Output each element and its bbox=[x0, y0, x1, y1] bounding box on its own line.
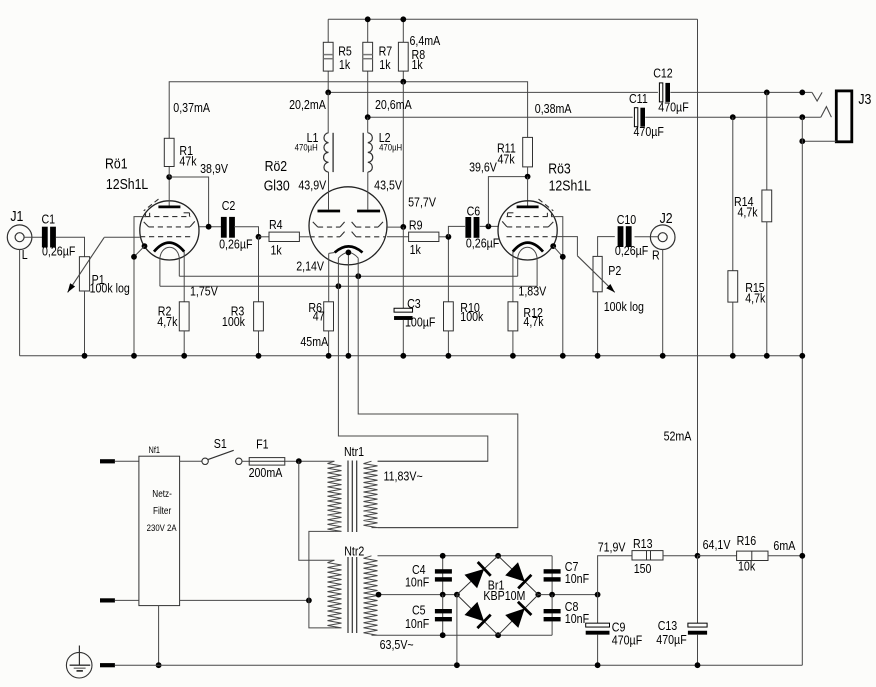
svg-text:6mA: 6mA bbox=[773, 538, 795, 553]
node ground bus R2 bbox=[181, 353, 187, 359]
label R9 bbox=[409, 217, 423, 232]
value R14 4,7k bbox=[737, 204, 757, 219]
diode Br1 D3 bbox=[465, 602, 491, 628]
svg-text:1,75V: 1,75V bbox=[190, 283, 218, 298]
wire bridge plus to R13 node bbox=[538, 594, 597, 596]
label 1,75V bbox=[190, 283, 218, 298]
svg-text:C1: C1 bbox=[42, 211, 56, 226]
svg-text:10nF: 10nF bbox=[405, 616, 429, 631]
svg-text:63,5V~: 63,5V~ bbox=[380, 637, 414, 652]
wire Rö2 screen to node bbox=[387, 226, 403, 228]
wire node to R4 bbox=[259, 236, 270, 238]
wire C10 to J2 bbox=[635, 236, 659, 238]
wire mains ground rail bbox=[115, 664, 802, 666]
label 6mA bbox=[773, 538, 795, 553]
value R6 47 bbox=[313, 309, 325, 324]
svg-text:R4: R4 bbox=[269, 217, 283, 232]
wire R12 bottom lead bbox=[512, 331, 514, 356]
label 64,1V bbox=[703, 537, 731, 552]
resistor R8 bbox=[398, 42, 408, 71]
label R3 bbox=[231, 303, 245, 318]
label KBP10M bbox=[483, 588, 525, 603]
value R3 100k bbox=[222, 314, 245, 329]
svg-text:470µH: 470µH bbox=[295, 142, 318, 153]
value R7 1k bbox=[379, 57, 390, 72]
svg-text:57,7V: 57,7V bbox=[408, 194, 436, 209]
node ground bus R3 bbox=[256, 353, 262, 359]
node J3 sleeve node bbox=[799, 138, 805, 144]
svg-text:64,1V: 64,1V bbox=[703, 537, 731, 552]
label P1 bbox=[92, 272, 105, 287]
label C11 bbox=[629, 91, 648, 106]
svg-text:4,7k: 4,7k bbox=[523, 314, 543, 329]
wire Ntr2 primary bottom bbox=[309, 600, 335, 628]
svg-text:R16: R16 bbox=[737, 533, 757, 548]
wire Ntr1 sec top bbox=[378, 460, 488, 462]
svg-text:KBP10M: KBP10M bbox=[483, 588, 525, 603]
svg-text:Rö1: Rö1 bbox=[105, 155, 128, 171]
label R2 bbox=[158, 303, 172, 318]
tube Rö3 grid1 row bbox=[507, 236, 558, 238]
svg-text:470µF: 470µF bbox=[633, 124, 663, 139]
wire Rö1 envelope to ground column bbox=[134, 246, 145, 257]
label 6,4mA bbox=[409, 33, 440, 48]
label R6 bbox=[308, 300, 322, 315]
diode Br1 D2 bbox=[505, 562, 531, 588]
svg-text:10nF: 10nF bbox=[405, 574, 429, 589]
wire R7 top lead bbox=[367, 19, 369, 42]
tube Rö3 anode bbox=[517, 205, 539, 208]
capacitor C12 bbox=[659, 83, 670, 102]
wire primary parallel feed bbox=[299, 461, 335, 560]
node R8 bottom junction bbox=[400, 79, 406, 85]
potentiometer P2 body bbox=[593, 256, 602, 291]
svg-text:Filter: Filter bbox=[153, 505, 171, 516]
label L2 bbox=[379, 130, 391, 145]
value R11 47k bbox=[498, 151, 515, 166]
node R15 top junction bbox=[730, 114, 736, 120]
node R9/R10/C6 junction bbox=[446, 234, 452, 240]
svg-text:Rö2: Rö2 bbox=[265, 158, 288, 174]
wire screen feed column x403 bbox=[402, 82, 404, 227]
wire J1 ground lead bbox=[19, 250, 21, 356]
svg-text:100k: 100k bbox=[460, 309, 483, 324]
label Rö2 type Gl30 bbox=[264, 177, 290, 193]
svg-text:100k log: 100k log bbox=[604, 299, 644, 314]
svg-text:10k: 10k bbox=[738, 559, 755, 574]
tube Rö1 grid1 row bbox=[140, 236, 191, 238]
tube Rö2 cathode bbox=[335, 246, 363, 252]
connector J1 outer bbox=[7, 225, 32, 250]
label J2 bbox=[660, 210, 673, 226]
tube Rö1 anode bbox=[158, 205, 180, 208]
capacitor C13 bbox=[688, 623, 707, 635]
wire filter to S1 bbox=[180, 460, 202, 462]
transformer Ntr2 core bbox=[348, 557, 357, 633]
label 43,9V bbox=[298, 177, 326, 192]
wire bridge minus to ground bbox=[456, 595, 458, 666]
label R15 bbox=[745, 280, 765, 295]
wire R14 column bbox=[766, 92, 768, 190]
svg-text:1k: 1k bbox=[271, 242, 282, 257]
potentiometer P1 body bbox=[79, 257, 89, 291]
label R7 bbox=[379, 43, 393, 58]
label Br1 bbox=[488, 577, 505, 592]
label L1 bbox=[307, 130, 319, 145]
tube Rö1 grid2 row bbox=[144, 221, 195, 227]
wire Rö3 g3/envelope ground column bbox=[551, 217, 563, 356]
wire right output rail y117 bbox=[368, 116, 633, 118]
wire C6 to Rö3 bbox=[480, 225, 498, 227]
label C9 bbox=[612, 619, 626, 634]
node ground bus P2 bbox=[595, 353, 601, 359]
node Rö1 output junction bbox=[206, 224, 212, 230]
resistor R9 bbox=[409, 232, 439, 241]
value R15 4,7k bbox=[745, 290, 765, 305]
node C4/C5 mid junction bbox=[440, 592, 446, 598]
svg-text:47k: 47k bbox=[498, 151, 515, 166]
value L2 470uH bbox=[379, 142, 402, 153]
transformer Ntr1 primary bbox=[328, 461, 342, 531]
wire P2 top to C10 bbox=[598, 237, 615, 257]
node bridge plus corner bbox=[535, 592, 541, 598]
node R5/L1 junction bbox=[325, 90, 331, 96]
svg-text:39,6V: 39,6V bbox=[469, 159, 497, 174]
label R11 bbox=[497, 140, 516, 155]
wire heater rail lower bbox=[160, 285, 537, 287]
svg-text:C13: C13 bbox=[658, 618, 678, 633]
svg-text:4,7k: 4,7k bbox=[157, 314, 177, 329]
label C3 bbox=[407, 296, 421, 311]
wire Rö3 grid to P2 wiper bbox=[557, 237, 577, 256]
node Rö1 anode junction bbox=[166, 174, 172, 180]
svg-text:12Sh1L: 12Sh1L bbox=[106, 176, 149, 192]
inductor L2 bbox=[363, 133, 373, 172]
tube Rö3 envelope bbox=[498, 201, 557, 260]
value C8 10nF bbox=[565, 611, 589, 626]
resistor R15 bbox=[728, 271, 738, 302]
value R4 1k bbox=[271, 242, 282, 257]
svg-text:4,7k: 4,7k bbox=[737, 204, 757, 219]
wire Rö2 heater CT column bbox=[347, 253, 349, 356]
svg-text:0,38mA: 0,38mA bbox=[535, 101, 572, 116]
wire R1 bottom lead bbox=[168, 167, 170, 178]
wire R4 to Rö2 grid bbox=[299, 236, 309, 238]
wire node up to C6 bbox=[448, 226, 465, 236]
node ground bus R14 bbox=[764, 353, 770, 359]
svg-text:C3: C3 bbox=[407, 296, 421, 311]
potentiometer P2 wiper arrow bbox=[577, 256, 614, 293]
label R4 bbox=[269, 217, 283, 232]
capacitor C2 bbox=[221, 217, 235, 238]
connector J3 ring contact bbox=[821, 107, 832, 118]
svg-text:1k: 1k bbox=[410, 242, 421, 257]
wire R6 bottom lead bbox=[328, 331, 330, 356]
svg-text:Rö3: Rö3 bbox=[548, 160, 571, 176]
node C2/R3/R4 junction bbox=[256, 234, 262, 240]
node R16 ground junction bbox=[799, 553, 805, 559]
svg-text:C11: C11 bbox=[629, 91, 648, 106]
node bridge ground junction bbox=[454, 662, 460, 668]
wire R8 top lead bbox=[402, 19, 404, 42]
label R13 bbox=[633, 536, 653, 551]
resistor R14 bbox=[762, 190, 772, 222]
wire left output rail y92 bbox=[328, 91, 658, 93]
value C3 100uF bbox=[405, 314, 435, 329]
value C7 10nF bbox=[565, 571, 589, 586]
tube Rö3 grid2 row bbox=[502, 221, 553, 227]
label P2 bbox=[608, 263, 621, 278]
node ground bus J2 bbox=[660, 353, 666, 359]
resistor R1 bbox=[164, 138, 174, 166]
tube Rö1 envelope bbox=[140, 201, 199, 260]
connector J2 inner bbox=[658, 233, 667, 242]
node ground bus P1 bbox=[82, 353, 88, 359]
transformer Ntr1 secondary bbox=[364, 461, 378, 527]
capacitor C5 bbox=[435, 609, 452, 621]
wire C5 column bbox=[442, 595, 444, 636]
wire B+ node to R16 bbox=[698, 555, 737, 557]
svg-text:C10: C10 bbox=[617, 212, 637, 227]
label R16 bbox=[737, 533, 757, 548]
label Rö2 bbox=[265, 158, 288, 174]
wire B+ vertical 52mA feed bbox=[697, 19, 699, 556]
svg-text:C6: C6 bbox=[467, 203, 481, 218]
wire C4 column bbox=[442, 556, 444, 595]
svg-text:11,83V~: 11,83V~ bbox=[383, 469, 422, 484]
svg-text:J3: J3 bbox=[858, 91, 871, 107]
svg-text:1k: 1k bbox=[339, 57, 350, 72]
svg-text:J1: J1 bbox=[10, 208, 23, 224]
node ground bus R15 bbox=[730, 353, 736, 359]
label 20,6mA bbox=[375, 97, 412, 112]
wire Rö2 anode B lead bbox=[367, 172, 369, 210]
label C6 bbox=[467, 203, 481, 218]
node C4 top junction bbox=[440, 553, 446, 559]
wire C6 node to R11 bottom bbox=[488, 177, 527, 227]
svg-text:470µF: 470µF bbox=[658, 99, 688, 114]
resistor R2 bbox=[179, 302, 189, 331]
node ground bus Rö3 env bbox=[560, 353, 566, 359]
label C10 bbox=[617, 212, 637, 227]
capacitor C3 bbox=[394, 308, 413, 320]
svg-text:470µF: 470µF bbox=[612, 632, 642, 647]
label R1 bbox=[179, 143, 193, 158]
transformer Ntr2 secondary bbox=[364, 556, 378, 635]
node ground bus heater CT bbox=[346, 353, 352, 359]
value C13 470uF bbox=[656, 632, 686, 647]
switch S1 bbox=[202, 450, 242, 464]
value R10 100k bbox=[460, 309, 483, 324]
label C2 bbox=[222, 198, 236, 213]
wire R16 to ground column bbox=[768, 555, 802, 557]
value C9 470uF bbox=[612, 632, 642, 647]
wire C1 to P1 bbox=[56, 237, 85, 257]
wire C12 to J3 tip bbox=[670, 91, 812, 93]
label 2,14V bbox=[296, 258, 324, 273]
label 71,9V bbox=[598, 539, 626, 554]
wire J3 sleeve bbox=[802, 140, 836, 142]
wire P2 bottom to ground bbox=[597, 292, 599, 356]
label 11,83V~ bbox=[383, 469, 422, 484]
wire S1 to F1 bbox=[242, 460, 249, 462]
connector J3 body bbox=[836, 91, 852, 142]
transformer Ntr1 core bbox=[348, 461, 357, 533]
svg-text:Nf1: Nf1 bbox=[149, 445, 161, 455]
tube Rö3 beam plate dash bbox=[539, 199, 554, 211]
label Ntr1 bbox=[344, 444, 364, 459]
wire Ntr1 sec bottom bbox=[378, 527, 518, 529]
node ground bus Rö1 env bbox=[131, 353, 137, 359]
value C6 0,26uF bbox=[466, 236, 499, 251]
value R5 1k bbox=[339, 57, 350, 72]
node R8 top junction bbox=[400, 16, 406, 22]
wire R9 to C6 node bbox=[439, 236, 449, 238]
wire R7 bottom lead bbox=[367, 71, 369, 117]
value R1 47k bbox=[179, 153, 196, 168]
resistor R11 bbox=[523, 137, 533, 167]
value C5 10nF bbox=[405, 616, 429, 631]
svg-text:43,5V: 43,5V bbox=[374, 177, 402, 192]
label R10 bbox=[460, 300, 480, 315]
node C6/anode junction bbox=[486, 224, 492, 230]
value R16 10k bbox=[738, 559, 755, 574]
label R8 bbox=[412, 47, 426, 62]
wire F1 to Ntr1 bbox=[285, 460, 335, 462]
connector J2 outer bbox=[650, 225, 675, 250]
node filter ground junction bbox=[156, 662, 162, 668]
node R7/L2 junction bbox=[365, 114, 371, 120]
node R14 top junction bbox=[764, 90, 770, 96]
capacitor C7 bbox=[544, 569, 561, 581]
svg-text:20,6mA: 20,6mA bbox=[375, 97, 412, 112]
wire Rö3 cathode lead bbox=[512, 252, 514, 302]
resistor R7 bbox=[363, 42, 373, 71]
netfilter Nf1 box bbox=[139, 456, 180, 605]
label 1,83V bbox=[518, 284, 546, 299]
svg-text:100µF: 100µF bbox=[405, 314, 435, 329]
label C5 bbox=[412, 602, 426, 617]
connector J1 inner bbox=[15, 233, 24, 242]
wire R5 bottom lead bbox=[327, 71, 329, 92]
value R8 1k bbox=[412, 57, 423, 72]
value C11 470uF bbox=[633, 124, 663, 139]
node bridge AC bottom bbox=[495, 632, 501, 638]
node Rö3 anode junction bbox=[525, 174, 531, 180]
tube Rö2 anode A bbox=[318, 210, 341, 213]
tube Rö3 heater bbox=[518, 247, 537, 286]
svg-text:43,9V: 43,9V bbox=[298, 177, 326, 192]
wire Ntr2 sec bottom bbox=[378, 634, 553, 636]
label C8 bbox=[565, 599, 579, 614]
node bridge AC top bbox=[495, 553, 501, 559]
resistor R12 bbox=[508, 302, 518, 331]
node J3 tip node bbox=[799, 90, 805, 96]
svg-text:20,2mA: 20,2mA bbox=[289, 97, 326, 112]
wire anode supply rail to R1 and R11 bbox=[169, 82, 527, 139]
svg-text:470µH: 470µH bbox=[379, 142, 402, 153]
label Rö1 type 12Sh1L bbox=[106, 176, 149, 192]
wire R15 bottom lead bbox=[732, 302, 734, 356]
node Rö3 envelope column junction bbox=[560, 254, 566, 260]
wire mains N to filter bbox=[115, 599, 139, 601]
wire Rö2 anode A lead bbox=[328, 172, 330, 210]
wire R10 top lead bbox=[447, 237, 449, 302]
value C10 0,26uF bbox=[615, 243, 648, 258]
svg-text:2,14V: 2,14V bbox=[296, 258, 324, 273]
svg-text:0,26µF: 0,26µF bbox=[466, 236, 499, 251]
label J3 bbox=[858, 91, 871, 107]
capacitor C9 bbox=[586, 623, 610, 635]
label Nf1 bbox=[149, 445, 161, 455]
svg-text:1k: 1k bbox=[412, 57, 423, 72]
svg-text:L: L bbox=[22, 247, 28, 262]
label F1 bbox=[256, 437, 269, 452]
wire C3 bottom lead bbox=[402, 320, 404, 356]
label 63,5V~ bbox=[380, 637, 414, 652]
wire Rö1 cathode lead bbox=[183, 252, 185, 302]
svg-text:1,83V: 1,83V bbox=[518, 284, 546, 299]
node J3 ring node bbox=[799, 114, 805, 120]
wire Rö2 heater right column bbox=[358, 258, 518, 527]
node F1/Ntr primary junction bbox=[296, 458, 302, 464]
wire Rö3 anode lead bbox=[527, 177, 529, 206]
svg-text:470µF: 470µF bbox=[656, 632, 686, 647]
node ground bus R10 bbox=[446, 353, 452, 359]
value P1 100k log bbox=[90, 280, 130, 295]
label J1 bbox=[10, 208, 23, 224]
label 39,6V bbox=[469, 159, 497, 174]
tube Rö3 cathode bbox=[513, 243, 543, 252]
tube Rö1 heater bbox=[160, 247, 179, 286]
label 38,9V bbox=[200, 161, 228, 176]
value L1 470uH bbox=[295, 142, 318, 153]
value C2 0,26uF bbox=[219, 236, 252, 251]
svg-text:0,26µF: 0,26µF bbox=[615, 243, 648, 258]
potentiometer P1 wiper arrow bbox=[68, 237, 105, 292]
label C13 bbox=[658, 618, 678, 633]
svg-text:100k log: 100k log bbox=[90, 280, 130, 295]
wire anode to C2 node bbox=[169, 177, 208, 227]
tube Rö2 anode B bbox=[357, 210, 380, 213]
label Netz- bbox=[152, 488, 172, 499]
wire R5 top lead bbox=[327, 19, 329, 42]
svg-text:100k: 100k bbox=[222, 314, 245, 329]
terminal mains L bbox=[100, 459, 115, 463]
svg-text:P2: P2 bbox=[608, 263, 621, 278]
wire filter box ground lead bbox=[158, 606, 160, 666]
node Rö2 screen junction bbox=[400, 224, 406, 230]
node N/primary junction bbox=[306, 598, 312, 604]
tube Rö1 grid3 row bbox=[145, 213, 190, 217]
wire R2 bottom lead bbox=[183, 331, 185, 356]
tube Rö1 cathode bbox=[154, 243, 184, 252]
node ground bus R6 bbox=[326, 353, 332, 359]
svg-text:4,7k: 4,7k bbox=[745, 290, 765, 305]
svg-text:F1: F1 bbox=[256, 437, 269, 452]
label Filter bbox=[153, 505, 171, 516]
node heater rail lower junction bbox=[336, 283, 342, 289]
svg-text:47: 47 bbox=[313, 309, 325, 324]
node B+ filter junction bbox=[695, 553, 701, 559]
svg-text:C12: C12 bbox=[653, 66, 673, 81]
svg-text:0,37mA: 0,37mA bbox=[173, 100, 210, 115]
wire R11 bottom lead bbox=[527, 167, 529, 177]
wire Rö3 envelope to ground column bbox=[553, 246, 563, 257]
wire J1 to C1 bbox=[24, 236, 42, 238]
node bridge minus corner bbox=[454, 592, 460, 598]
node ground bus C3 bbox=[400, 353, 406, 359]
